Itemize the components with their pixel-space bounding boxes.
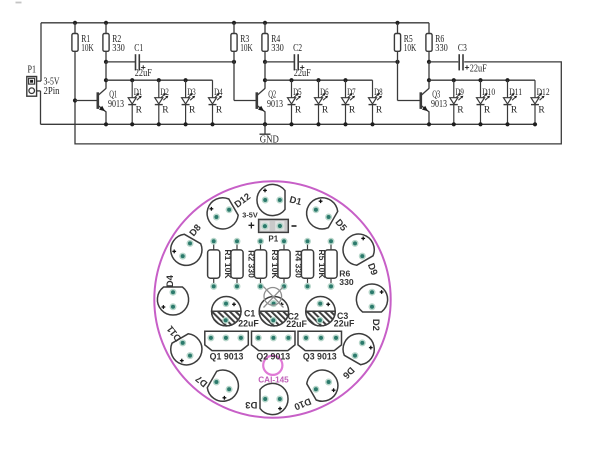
wire VCC down to P1 pin1 (40, 23, 42, 81)
svg-text:D1: D1 (134, 88, 143, 98)
LED D1 with resistor R (128, 78, 142, 126)
wire C2 to R5 bottom (298, 61, 397, 63)
PCB LED D8 footprint (171, 222, 204, 265)
svg-text:R: R (538, 106, 545, 116)
PCB resistor R6 footprint (325, 238, 354, 290)
junction Q2 collector / LED rail (263, 78, 267, 82)
PCB connector P1 power header footprint (242, 211, 296, 244)
LED D9 with resistor R (450, 78, 464, 126)
stray scan artifact top-left (16, 2, 22, 4)
svg-text:330: 330 (271, 43, 284, 54)
PCB LED D3 footprint (245, 383, 288, 414)
svg-text:22uF: 22uF (294, 68, 311, 79)
resistor R3 (231, 23, 253, 62)
LED D6 with resistor R (315, 78, 329, 126)
LED D10 with resistor R (477, 78, 496, 126)
junction R2 bottom node (104, 60, 108, 64)
svg-text:D3: D3 (245, 399, 257, 410)
PCB resistor R2 footprint (231, 238, 257, 290)
svg-text:C2: C2 (293, 43, 302, 54)
wire ground rail (41, 123, 536, 125)
svg-text:D2: D2 (370, 319, 381, 331)
svg-text:Q1 9013: Q1 9013 (210, 351, 244, 361)
junction Q3 collector / LED rail (427, 78, 431, 82)
ground symbol GND (260, 122, 280, 145)
PCB LED D11 footprint (165, 323, 202, 365)
PCB transistor Q1 footprint (205, 331, 249, 361)
wire collector Q3 riser (428, 62, 430, 89)
svg-text:R: R (136, 106, 143, 116)
svg-text:R: R (484, 106, 491, 116)
resistor R6 (426, 23, 448, 62)
svg-text:9013: 9013 (108, 99, 124, 110)
svg-text:D12: D12 (537, 88, 550, 98)
svg-text:10K: 10K (404, 43, 417, 54)
LED D5 with resistor R (288, 78, 302, 126)
junction Q1 collector / LED rail (104, 78, 108, 82)
PCB capacitor C3 electrolytic footprint (306, 297, 355, 329)
junction R3 bottom node (232, 60, 236, 64)
svg-text:Q3 9013: Q3 9013 (303, 351, 337, 361)
PCB LED D2 footprint (356, 284, 387, 331)
LED D4 with resistor R (209, 80, 223, 126)
svg-text:R: R (189, 106, 196, 116)
svg-text:C1: C1 (134, 43, 143, 54)
svg-text:R: R (349, 106, 356, 116)
PCB resistor R4 footprint (278, 238, 304, 290)
svg-text:D4: D4 (165, 274, 176, 287)
wire LED anode rail stage2 (265, 79, 373, 81)
wire P1 pin2 down to ground rail (40, 91, 42, 124)
svg-text:10K: 10K (81, 43, 94, 54)
svg-text:GND: GND (260, 135, 279, 146)
junction dot top rail x=234 (232, 21, 236, 25)
svg-text:2Pin: 2Pin (44, 86, 61, 97)
PCB LED D12 footprint (207, 191, 253, 229)
wire R6 to C3 (429, 61, 458, 63)
PCB transistor Q2 footprint (252, 331, 296, 361)
svg-text:9013: 9013 (267, 99, 283, 110)
PCB resistor R5 footprint (301, 238, 327, 290)
PCB mounting hole (263, 356, 282, 375)
PCB LED D7 footprint (194, 370, 239, 401)
PCB LED D6 footprint (340, 334, 374, 381)
svg-text:R: R (322, 106, 329, 116)
svg-text:R: R (457, 106, 464, 116)
PCB center crosshair marker (264, 287, 284, 308)
svg-text:330: 330 (112, 43, 125, 54)
svg-text:R: R (511, 106, 518, 116)
wire LED anode rail stage1 (106, 79, 213, 81)
resistor R2 (103, 23, 125, 62)
wire P1 pin1 stub (37, 80, 41, 82)
svg-text:D5: D5 (293, 88, 302, 98)
svg-text:D7: D7 (347, 88, 356, 98)
transistor Q1 9013 NPN (75, 88, 124, 126)
svg-text:P1: P1 (268, 235, 278, 244)
svg-text:D9: D9 (455, 88, 464, 98)
svg-text:330: 330 (435, 43, 448, 54)
wire collector Q1 riser (105, 62, 107, 89)
junction R4 bottom node (263, 60, 267, 64)
svg-text:C1: C1 (244, 309, 255, 319)
resistor R5 (394, 23, 416, 62)
wire C1 to R3 bottom (139, 61, 234, 63)
wire R2 to C1 (106, 61, 136, 63)
svg-text:9013: 9013 (431, 99, 447, 110)
PCB capacitor C2 electrolytic footprint (259, 297, 307, 330)
svg-text:CAI-145: CAI-145 (258, 376, 289, 385)
svg-text:P1: P1 (28, 65, 37, 76)
capacitor C2 (293, 43, 311, 79)
svg-text:330: 330 (339, 277, 354, 287)
LED D3 with resistor R (182, 78, 196, 126)
junction dot top rail x=75 (73, 21, 77, 25)
svg-text:22uF: 22uF (470, 64, 487, 75)
PCB LED D1 footprint (257, 184, 303, 215)
svg-text:R: R (376, 106, 383, 116)
svg-text:22uF: 22uF (286, 319, 307, 329)
capacitor C1 (134, 43, 152, 79)
junction dot top rail x=397.5 (395, 21, 399, 25)
PCB LED D4 footprint (157, 274, 188, 315)
svg-text:C3: C3 (458, 43, 467, 54)
junction Q1 base node (73, 98, 77, 102)
junction R5 bottom node (395, 60, 399, 64)
svg-text:D10: D10 (482, 88, 495, 98)
resistor R1 (72, 23, 94, 101)
svg-text:R: R (216, 106, 223, 116)
svg-text:D4: D4 (214, 88, 223, 98)
PCB LED D5 footprint (307, 198, 350, 234)
LED D11 with resistor R (504, 78, 523, 126)
junction dot top rail x=106 (104, 21, 108, 25)
wire R4 to C2 (265, 61, 294, 63)
wire LED anode rail stage3 (429, 79, 535, 81)
resistor R4 (262, 23, 284, 62)
svg-text:22uF: 22uF (135, 68, 152, 79)
svg-text:D2: D2 (160, 88, 169, 98)
svg-text:D8: D8 (374, 88, 383, 98)
svg-text:D6: D6 (320, 88, 329, 98)
PCB LED D10 footprint (292, 370, 338, 412)
wire C1/R3 to Q2 base (233, 62, 235, 101)
junction dot top rail x=265 (263, 21, 267, 25)
PCB transistor Q3 footprint (298, 331, 342, 361)
PCB board outline circle (154, 181, 390, 417)
transistor Q3 9013 NPN (398, 88, 448, 126)
LED D8 with resistor R (369, 80, 383, 126)
capacitor C3 (458, 43, 487, 75)
svg-text:3-5V: 3-5V (242, 211, 258, 220)
PCB LED D9 footprint (343, 234, 379, 277)
svg-text:10K: 10K (240, 43, 253, 54)
junction R6 bottom node (427, 60, 431, 64)
svg-text:R: R (162, 106, 169, 116)
PCB resistor R1 footprint (208, 238, 234, 290)
svg-text:22uF: 22uF (334, 319, 355, 329)
wire C2/R5 to Q3 base (397, 62, 399, 101)
PCB resistor R3 footprint (254, 238, 280, 290)
PCB capacitor C1 electrolytic footprint (212, 297, 260, 329)
svg-text:22uF: 22uF (238, 319, 259, 329)
LED D7 with resistor R (342, 78, 356, 126)
wire feedback from C3 to Q1 base (bottom) (75, 62, 561, 144)
svg-text:+: + (248, 220, 255, 232)
svg-text:D3: D3 (187, 88, 196, 98)
transistor Q2 9013 NPN (234, 88, 283, 126)
wire P1 pin2 stub (37, 90, 41, 92)
LED D12 with resistor R (531, 80, 550, 126)
wire VCC top rail (41, 22, 429, 24)
svg-text:Q2 9013: Q2 9013 (256, 351, 290, 361)
connector P1 2Pin power header (27, 65, 60, 97)
LED D2 with resistor R (155, 78, 169, 126)
svg-text:D11: D11 (509, 88, 522, 98)
wire collector Q2 riser (264, 62, 266, 89)
svg-text:R: R (295, 106, 302, 116)
